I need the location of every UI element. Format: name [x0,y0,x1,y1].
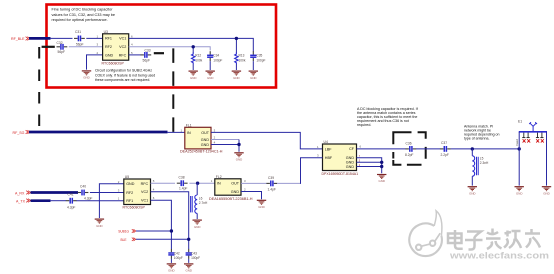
ground (U4) [377,175,386,184]
watermark chinese text [449,230,541,251]
op IC U3 RF switch [102,30,129,66]
capacitor C34 [207,51,222,62]
ground (U3 GND) [82,71,91,80]
svg-text:56pF: 56pF [58,50,66,54]
svg-text:RF2: RF2 [105,45,112,49]
wire: U3 GND pin to ground [87,55,103,70]
diplexer U4 [322,140,359,176]
svg-text:8.2pF: 8.2pF [405,153,413,157]
op IC U5 RF switch [123,175,151,210]
dash segment (dashed coex top-left) [42,46,55,48]
svg-text:100k: 100k [239,59,246,63]
svg-text:GND: GND [346,161,355,165]
svg-text:these components are not requi: these components are not required. [95,78,150,82]
svg-text:GND: GND [105,53,114,57]
svg-text:OUT: OUT [231,182,240,186]
svg-text:OUT: OUT [201,131,210,135]
wire: U5 VC2 to C43 [151,192,189,249]
port label A_TX [16,199,30,204]
capacitor C32 [57,41,68,54]
svg-text:FL1: FL1 [186,123,192,127]
wire: L6 to gnd [196,213,198,219]
svg-text:100k: 100k [195,59,202,63]
svg-text:100pF: 100pF [213,59,222,63]
svg-text:L6: L6 [199,196,203,200]
ground (antenna right) [542,187,551,196]
node junction U4 gnd b [380,165,383,168]
svg-text:DPX165950DT-8154A1: DPX165950DT-8154A1 [322,172,359,176]
wire: A_TX to C41 [50,200,66,202]
wire: C36 to C37 [416,148,440,150]
node junction SUB1G/VC1 [170,229,173,232]
capacitor C31 [74,30,85,46]
svg-text:1.4pF: 1.4pF [179,187,187,191]
svg-text:R12: R12 [195,54,201,58]
filter FL2 [209,175,253,201]
svg-text:100pF: 100pF [174,256,183,260]
node junction U4 gnd a [380,161,383,164]
svg-text:type of antenna.: type of antenna. [464,136,489,140]
port label RF_SG [13,130,30,135]
note: DC blocking text [357,107,419,127]
svg-text:56pF: 56pF [76,43,84,47]
capacitor C36 [405,142,416,157]
svg-text:100pF: 100pF [191,256,200,260]
svg-text:VC2: VC2 [141,190,148,194]
ground (C42) [167,264,176,273]
ground (L6) [193,220,202,229]
svg-text:1.4pF: 1.4pF [268,187,276,191]
svg-text:required for optimal performan: required for optimal performance. [52,18,108,22]
svg-text:U4: U4 [324,140,328,144]
dashed DNI box around C36 [393,132,425,165]
ground (R13) [232,71,241,80]
node junction L5 [471,147,474,150]
capacitor C40 [78,185,93,201]
dashed coex region left edge [38,47,40,131]
ground (C35) [249,71,258,80]
svg-text:Circuit configuration for SUB/: Circuit configuration for SUB/2.4GHz [95,69,152,73]
wire: riser to U4 HBF [301,158,323,184]
capacitor C43 [186,249,201,260]
wire: C32 to U3 RF2 (lavender) [69,46,103,48]
svg-text:GND: GND [346,156,355,160]
svg-text:C32: C32 [57,41,63,45]
svg-text:RF_BLE: RF_BLE [11,37,25,41]
wire: L5 to gnd [471,176,473,185]
wire: antenna right gnd vertical [546,132,548,186]
svg-text:VC1: VC1 [141,199,148,203]
dashed coex region right edge [172,48,174,132]
wire: C34 to gnd [209,61,211,70]
wire: L5 top [471,149,473,156]
capacitor C37 [440,141,451,157]
capacitor C35 [250,51,265,62]
wire: SUB1G to VC1 [136,230,171,232]
resistor R13 [235,52,246,64]
wire: R12 drop [192,47,194,53]
svg-text:4.3pF: 4.3pF [67,205,75,209]
wire: C40 to U5 RF2 [90,192,124,194]
wire: U3 RFC to C33 [129,54,141,56]
svg-text:C34: C34 [213,54,219,58]
svg-text:RTC6608OSP: RTC6608OSP [123,206,146,210]
svg-text:LBF: LBF [325,147,333,151]
capacitor C33 [140,48,151,62]
wire: C38 to FL2 IN (lavender) [189,182,214,184]
node junction antenna feed [518,147,521,150]
dash segment (after C33) [154,52,164,54]
wire: U4 GND pins to ground [357,158,382,174]
wire: U3 VC2 to C34 (lavender) [129,47,211,51]
port label RF_BLE [11,37,30,42]
filter FL1 [180,123,223,153]
ground (C43) [184,264,193,273]
wire: RF_BLE thick bus [29,37,51,40]
wire: R13 to gnd [235,64,237,70]
svg-text:C40: C40 [80,185,86,189]
svg-text:C41: C41 [68,193,74,197]
svg-text:RFC: RFC [119,53,127,57]
svg-text:C33: C33 [145,48,151,52]
wire: C37 to antenna feed [451,148,520,150]
svg-text:C31: C31 [75,30,81,34]
svg-text:SUB1G: SUB1G [118,230,129,234]
note: antenna match text [464,125,500,141]
node junction VC2/R12 [192,45,195,48]
svg-text:values for C31, C32, and C33 m: values for C31, C32, and C33 may be [52,13,116,17]
svg-text:DEA165550BT-2236B1-H: DEA165550BT-2236B1-H [209,197,253,201]
svg-text:Feed: Feed [515,139,519,146]
wire: C43 to gnd [188,259,190,263]
wire: C42 to gnd [170,259,172,263]
note: coex config text [95,69,155,82]
svg-text:C39: C39 [268,176,274,180]
wire: U3 VC1 to R13/C35 (top) [129,38,254,51]
svg-text:GND: GND [346,165,355,169]
wire: C35 to gnd [252,61,254,70]
wire: R12 to gnd [192,64,194,70]
svg-text:C37: C37 [441,141,447,145]
wire: L6 top [196,183,198,195]
svg-text:GND: GND [231,190,240,194]
capacitor C39 [266,176,277,191]
port label A_RX [15,191,30,196]
ground (L5) [468,187,477,196]
wire: A_TX thick bus [31,199,51,202]
ground (U5 GND) [95,219,104,228]
svg-text:FL2: FL2 [216,175,222,179]
ground (FL1) [234,153,243,162]
wire: U4 CF to antenna line [357,148,406,150]
svg-text:A_RX: A_RX [15,191,25,195]
svg-text:E1: E1 [518,120,522,124]
note: fine tuning text [52,8,116,22]
svg-text:56pF: 56pF [143,58,151,62]
svg-text:R13: R13 [239,54,245,58]
svg-text:required.: required. [357,123,371,127]
svg-text:VC1: VC1 [119,37,126,41]
ground (FL2) [257,200,266,209]
svg-text:www.elecfans.com: www.elecfans.com [449,251,549,261]
svg-text:U3: U3 [104,30,108,34]
wire: C41 to U5 RF1 [76,200,123,202]
antenna E1 [515,120,547,146]
svg-text:C38: C38 [179,175,185,179]
ground (antenna feed) [515,187,524,196]
svg-text:HBF: HBF [325,156,333,160]
svg-text:RF1: RF1 [126,199,133,203]
svg-text:CF: CF [349,147,355,151]
svg-text:RFC: RFC [141,182,149,186]
inductor L6 [191,195,208,213]
wire: FL2 OUT to C39 (lavender) [241,182,267,184]
capacitor C41 [66,193,77,210]
capacitor C42 [168,249,183,260]
wire: C39 to U4 HBF (lavender) [277,182,301,184]
wire: FL1 GND pin4 [211,140,239,152]
node junction BLE/VC2 [187,238,190,241]
svg-text:BLE: BLE [121,238,127,242]
ground (R12) [189,71,198,80]
svg-text:GND: GND [126,182,135,186]
capacitor C38 [177,175,188,190]
port label SUB1G [118,229,136,233]
wire: antenna feed vertical to gnd [518,132,520,186]
wire: FL1 OUT to U4 LBF [211,132,323,149]
svg-text:U5: U5 [125,175,129,179]
wire: RF_SG thick bus [29,131,168,134]
node junction FL1 gnd [237,143,240,146]
wire: FL2 GND to ground [241,192,262,200]
ground (C34) [206,71,215,80]
svg-text:COEX only. If feature is not b: COEX only. If feature is not being used [95,73,155,77]
red annotation box [47,5,277,88]
svg-text:GND: GND [201,138,210,142]
wire: FL1 GND pin2 (lavender) [211,139,239,141]
svg-text:RTC6608OSP: RTC6608OSP [102,61,125,65]
watermark logo circle [409,211,442,256]
svg-text:4.3pF: 4.3pF [84,196,92,200]
svg-text:2.7nH: 2.7nH [199,201,208,205]
svg-text:2.3nH: 2.3nH [480,161,489,165]
wire: RF_BLE to C31 [50,37,73,39]
svg-text:RF2: RF2 [126,191,133,195]
wire: RF_SG to FL1 IN [167,131,185,133]
node junction L6 [196,182,199,185]
svg-text:RF1: RF1 [105,37,112,41]
inductor L5 [472,156,489,176]
wire: U5 VC1 to C42 [151,200,172,249]
wire: R13 drop [235,38,237,52]
resistor R12 [192,52,203,64]
svg-text:RF_SG: RF_SG [13,131,25,135]
svg-text:L5: L5 [480,157,484,161]
wire: U5 RFC to C38 (lavender) [151,182,176,184]
port label BLE [121,238,136,242]
svg-text:C35: C35 [256,54,262,58]
svg-text:A_TX: A_TX [16,199,26,203]
svg-text:2.2pF: 2.2pF [441,153,449,157]
wire: U5 GND pin to ground [99,184,123,218]
svg-text:IN: IN [217,182,221,186]
svg-text:VC2: VC2 [119,45,126,49]
svg-text:DEA252450BT-1294C1-H: DEA252450BT-1294C1-H [180,150,223,154]
svg-text:Fine tuning of DC blocking cap: Fine tuning of DC blocking capacitor [52,8,114,12]
wire: C31 to U3 RF1 [86,37,102,39]
svg-text:C36: C36 [406,142,412,146]
svg-text:IN: IN [187,131,191,135]
svg-text:100pF: 100pF [256,59,265,63]
node junction VC1/R13 [235,37,238,40]
wire: A_RX thick bus [31,191,79,194]
svg-text:GND: GND [201,143,210,147]
wire: BLE to VC2 [136,238,189,240]
